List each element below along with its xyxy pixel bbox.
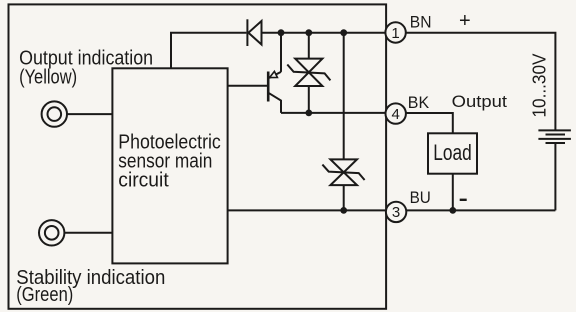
zener diode Z2 (bidirectional) xyxy=(322,33,364,211)
sensor enclosure box xyxy=(9,4,387,308)
svg-text:BK: BK xyxy=(408,93,430,112)
wire load to BU line xyxy=(452,174,454,211)
svg-text:BU: BU xyxy=(410,188,431,207)
junction dot emitter/BN rail xyxy=(278,29,285,36)
wire diode D1 to terminal 1 xyxy=(262,32,386,34)
svg-text:BN: BN xyxy=(410,13,432,32)
junction dot Z1 top xyxy=(305,29,312,36)
label minus xyxy=(460,199,467,201)
wire Q1 collector to terminal 4 (BK) xyxy=(281,112,385,114)
svg-text:3: 3 xyxy=(392,204,400,221)
load box xyxy=(428,133,477,173)
transistor Q1 xyxy=(268,33,281,113)
diode D1 xyxy=(247,19,261,46)
battery B1 xyxy=(538,130,571,143)
wire green LED to main circuit xyxy=(65,232,113,234)
wire terminal 4 to load xyxy=(406,113,452,133)
svg-text:1: 1 xyxy=(391,25,399,42)
wire main circuit to terminal 3 (BU) xyxy=(228,209,385,211)
junction dot load bottom xyxy=(449,207,456,214)
zener diode Z1 (bidirectional) xyxy=(287,33,330,113)
wire BN terminal 1 to battery xyxy=(406,33,555,131)
junction dot Z2 bottom xyxy=(340,207,347,214)
wire base of Q1 from main circuit xyxy=(228,85,269,87)
svg-text:Load: Load xyxy=(433,140,471,165)
label Photoelectric sensor main circuit xyxy=(118,132,221,192)
svg-text:circuit: circuit xyxy=(118,170,169,192)
wire main circuit top to diode D1 xyxy=(171,33,246,69)
main circuit box xyxy=(112,68,227,263)
terminal 4 xyxy=(386,103,406,123)
wire battery bottom xyxy=(554,143,556,211)
svg-text:4: 4 xyxy=(392,106,400,123)
terminal 1 xyxy=(385,22,405,42)
LED indicator yellow xyxy=(42,101,67,126)
junction dot Z2 top xyxy=(340,29,347,36)
svg-text:(Green): (Green) xyxy=(16,284,73,306)
LED indicator green xyxy=(39,220,64,245)
svg-text:10...30V: 10...30V xyxy=(529,53,550,118)
svg-text:(Yellow): (Yellow) xyxy=(19,67,77,89)
wire terminal 3 to battery minus xyxy=(407,209,556,211)
svg-text:Output: Output xyxy=(452,92,508,111)
wire yellow LED to main circuit xyxy=(67,113,112,115)
junction dot Z1 bottom xyxy=(305,110,312,117)
svg-text:+: + xyxy=(459,10,471,32)
terminal 3 xyxy=(386,202,406,222)
